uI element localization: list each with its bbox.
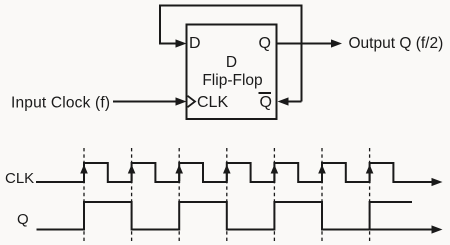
rising edge arrow 2 [128,165,136,182]
rising edge arrow 3 [175,165,183,182]
Q waveform [37,202,435,230]
arrowhead into CLK pin [176,97,187,105]
CLK waveform [36,163,434,182]
Q last rising edge and high segment [370,202,412,230]
Q time-axis arrowhead [432,225,443,233]
svg-text:Flip-Flop: Flip-Flop [202,72,262,89]
rising edge arrow 4 [223,165,231,182]
D flip-flop U1 box [187,25,277,120]
rising edge arrow 7 [366,165,374,182]
svg-text:Output Q (f/2): Output Q (f/2) [349,35,444,52]
dashed timing grid line 4 [226,148,228,242]
arrowhead into Qbar pin [278,97,289,105]
dashed timing grid line 6 [321,148,323,242]
dashed timing grid line 1 [83,148,85,242]
svg-text:Q: Q [259,35,271,52]
wire: feedback right vertical segment [301,6,303,102]
svg-text:Q: Q [17,211,29,228]
Qbar overline [259,92,272,94]
svg-text:Input Clock (f): Input Clock (f) [11,94,110,111]
svg-text:D: D [226,54,237,71]
svg-text:CLK: CLK [197,94,228,111]
svg-text:Q: Q [260,94,272,111]
svg-text:D: D [189,35,201,52]
CLK time-axis arrowhead [432,178,443,186]
rising edge arrow 1 [80,165,88,182]
wire: Q output [277,43,333,45]
arrowhead into D pin [176,39,187,47]
clock edge triangle on CLK pin [188,96,196,107]
wire: input clock to CLK pin [113,101,178,103]
wire: feedback Qbar horizontal segment [286,101,302,103]
rising edge arrow 6 [318,165,326,182]
svg-text:CLK: CLK [5,170,34,187]
dashed timing grid line 5 [273,148,275,242]
dashed timing grid line 2 [131,148,133,242]
arrowhead on Q output [331,39,342,47]
dashed timing grid line 3 [178,148,180,242]
wire: feedback top horizontal segment [159,5,303,7]
wire: feedback left vertical segment [159,5,161,44]
wire: feedback into D pin [159,43,178,45]
rising edge arrow 5 [271,165,279,182]
dashed timing grid line 7 [369,148,371,242]
